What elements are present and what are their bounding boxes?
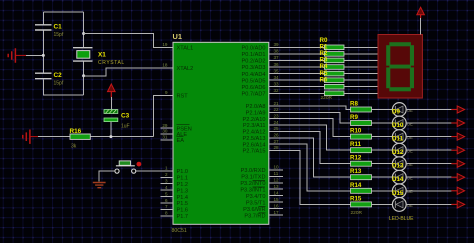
power VCC arrow (above C3)	[108, 84, 116, 98]
svg-text:P1.0: P1.0	[177, 169, 189, 175]
wire R0 to 7-seg display	[344, 46, 378, 48]
svg-text:P3.2/INT0: P3.2/INT0	[240, 181, 265, 187]
resistor R8 220R (LED channel)	[351, 107, 372, 112]
svg-text:11: 11	[274, 171, 279, 176]
power arrow (right) for LED D10	[451, 119, 464, 126]
pin stub EA (pin 31)	[161, 139, 174, 141]
svg-text:P2.1/A9: P2.1/A9	[246, 111, 266, 117]
wire button right to U1 pin 1 (P1.0)	[136, 170, 173, 172]
svg-text:P2.5/A13: P2.5/A13	[242, 136, 265, 142]
svg-text:R8: R8	[350, 101, 358, 108]
wire RST net to U1 pin 9	[154, 95, 174, 136]
resistor R0 220R (7-seg segment)	[324, 45, 344, 50]
wire left rail x=43 through C1 and C2	[43, 12, 83, 95]
power arrow (right) for LED D16	[451, 201, 464, 208]
pin stub P3.1 (pin 11)	[269, 175, 283, 177]
wire display common to VCC	[420, 18, 422, 35]
svg-text:R15: R15	[350, 195, 362, 202]
svg-text:21: 21	[274, 101, 280, 106]
wire P2.6 to resistor R14	[269, 144, 351, 191]
wire R9 to LED	[372, 122, 393, 124]
svg-text:16: 16	[274, 203, 280, 208]
svg-text:R6: R6	[320, 76, 328, 83]
label D12	[392, 149, 404, 156]
svg-text:P1.2: P1.2	[177, 182, 189, 188]
wire R14 to LED	[372, 190, 393, 192]
svg-text:R16: R16	[70, 128, 82, 135]
svg-text:P0.1/AD1: P0.1/AD1	[242, 52, 266, 58]
svg-text:LED-BLUE: LED-BLUE	[389, 216, 414, 222]
LED D9 (LED-BLUE)	[392, 103, 406, 117]
svg-text:P1.7: P1.7	[177, 214, 189, 220]
wire R6 to 7-seg display	[344, 86, 378, 88]
LED D12 (LED-BLUE)	[392, 143, 406, 157]
svg-text:P2.7/A15: P2.7/A15	[242, 149, 265, 155]
7-segment display body	[378, 35, 422, 99]
wire LED D15 to power arrow	[406, 190, 451, 192]
wire LED D12 to power arrow	[406, 149, 451, 151]
svg-text:P3.4/T0: P3.4/T0	[246, 194, 266, 200]
wire XTAL2 net to U1 pin 18	[84, 68, 173, 76]
label LED-BLUE fragment row 0	[407, 108, 413, 113]
wire P2.2 to resistor R10	[269, 119, 351, 137]
pin number 9 (RST)	[165, 90, 168, 95]
svg-text:34: 34	[274, 75, 280, 80]
svg-text:39: 39	[274, 42, 280, 47]
label R5	[320, 70, 328, 77]
svg-text:P0.2/AD2: P0.2/AD2	[242, 59, 266, 65]
wire LED D11 to power arrow	[406, 136, 451, 138]
svg-text:P2.2/A10: P2.2/A10	[242, 117, 265, 123]
junction RST node (R16/C3)	[109, 135, 112, 138]
label D15	[392, 190, 404, 197]
wire LED D13 to power arrow	[406, 163, 451, 165]
wire P2.5 to resistor R13	[269, 138, 351, 177]
wire R13 to LED	[372, 176, 393, 178]
wire P0.4 to resistor R4	[269, 73, 324, 75]
svg-text:28: 28	[274, 145, 280, 150]
wire P2.7 to resistor R15	[269, 150, 351, 204]
wire XTAL1 net to U1 pin 19	[84, 34, 173, 48]
label LED-BLUE fragment row 3	[407, 149, 413, 154]
svg-text:35: 35	[274, 68, 280, 73]
pin stub P1.3 (pin 4)	[161, 189, 174, 191]
svg-text:P0.4/AD4: P0.4/AD4	[242, 72, 266, 78]
pin stub P1.4 (pin 5)	[161, 196, 174, 198]
resistor R7 220R (7-seg segment)	[324, 91, 344, 96]
label R15	[350, 195, 362, 202]
svg-text:33: 33	[274, 82, 280, 87]
svg-text:15pf: 15pf	[54, 32, 64, 38]
svg-text:XTAL2: XTAL2	[177, 66, 194, 72]
power arrow (right) for LED D9	[451, 106, 464, 113]
LED D10 (LED-BLUE)	[392, 116, 406, 130]
svg-text:P1.1: P1.1	[177, 176, 189, 182]
svg-text:32: 32	[274, 88, 280, 93]
pin stub P1.5 (pin 6)	[161, 202, 174, 204]
power arrow (right) for LED D15	[451, 187, 464, 194]
pin number 2 (P1.1)	[165, 172, 168, 177]
resistor R14 220R (LED channel)	[351, 188, 372, 193]
label R6	[320, 76, 328, 83]
resistor R3 220R (7-seg segment)	[324, 65, 344, 70]
svg-text:UE: UE	[407, 149, 413, 154]
resistor R13 220R (LED channel)	[351, 175, 372, 180]
wire ground to R16 left	[38, 136, 70, 138]
wire LED D14 to power arrow	[406, 176, 451, 178]
resistor R6 220R (7-seg segment)	[324, 84, 344, 89]
label LED-BLUE fragment row 1	[407, 121, 413, 126]
svg-text:38: 38	[274, 49, 280, 54]
label R8	[350, 101, 358, 108]
svg-text:UE: UE	[407, 108, 413, 113]
wire P0.6 to resistor R6	[269, 86, 324, 88]
label D13	[392, 163, 404, 170]
capacitor C2	[35, 72, 64, 87]
resistor R2 220R (7-seg segment)	[324, 58, 344, 63]
U1 reference label	[173, 32, 182, 41]
svg-text:10: 10	[274, 165, 280, 170]
wire VCC arrow to C3 top	[110, 97, 112, 110]
ground (sideways power rail symbol) at C1/C2 midpoint	[8, 48, 26, 62]
resistor R4 220R (7-seg segment)	[324, 71, 344, 76]
svg-text:36: 36	[274, 62, 280, 67]
svg-text:UE: UE	[407, 189, 413, 194]
svg-text:D14: D14	[392, 176, 404, 183]
svg-text:UE: UE	[407, 176, 413, 181]
label R0	[320, 37, 328, 44]
label D11	[392, 136, 404, 143]
pin number 30 (ALE)	[162, 129, 168, 134]
svg-text:RST: RST	[177, 94, 189, 100]
pin stub P3.0 (pin 10)	[269, 169, 283, 171]
svg-text:P1.4: P1.4	[177, 195, 189, 201]
wire R16 to RST node	[90, 136, 153, 138]
wire P2.4 to resistor R12	[269, 131, 351, 163]
svg-text:UE: UE	[407, 162, 413, 167]
LED D14 (LED-BLUE)	[392, 170, 406, 184]
svg-text:7: 7	[165, 204, 168, 209]
wire top rail (C1 top to crystal-top rail)	[43, 11, 83, 13]
U1 right pin numbers	[274, 42, 280, 215]
svg-text:27: 27	[274, 139, 280, 144]
svg-text:1uF: 1uF	[121, 123, 130, 129]
resistor R1 220R (7-seg segment)	[324, 52, 344, 57]
svg-text:D13: D13	[392, 163, 404, 170]
pin number 4 (P1.3)	[165, 185, 168, 190]
svg-text:15: 15	[274, 197, 280, 202]
svg-text:P1.5: P1.5	[177, 201, 189, 207]
resistor R12 220R (LED channel)	[351, 161, 372, 166]
wire R2 to 7-seg display	[344, 59, 378, 61]
svg-text:13: 13	[274, 184, 280, 189]
label D14	[392, 176, 404, 183]
wire R10 to LED	[372, 136, 393, 138]
U1 value label 80C51	[172, 228, 187, 234]
svg-text:9: 9	[165, 90, 168, 95]
label R4	[320, 63, 328, 70]
label LED-BLUE (model name, bottom)	[389, 216, 414, 222]
wire P0.0 to resistor R0	[269, 46, 324, 48]
label R2	[320, 50, 328, 57]
svg-text:P3.7/RD: P3.7/RD	[244, 213, 265, 219]
svg-text:D9: D9	[392, 109, 400, 116]
svg-text:14: 14	[274, 191, 280, 196]
label D9	[392, 109, 400, 116]
capacitor C3 (electrolytic)	[104, 110, 130, 130]
pin stub ALE (pin 30)	[161, 133, 174, 135]
svg-text:3: 3	[165, 179, 168, 184]
power VCC arrow above display	[417, 7, 425, 18]
wire button left to ground	[99, 171, 115, 182]
pin stub P3.5 (pin 15)	[269, 201, 283, 203]
svg-text:19: 19	[162, 42, 168, 47]
wire R11 to LED	[372, 149, 393, 151]
svg-text:2: 2	[165, 172, 168, 177]
LED D11 (LED-BLUE)	[392, 130, 406, 144]
svg-text:30: 30	[162, 129, 168, 134]
crystal X1	[73, 48, 125, 66]
resistor R16 3k	[70, 128, 91, 150]
pin number 8 (P1.7)	[165, 211, 168, 216]
wire R3 to 7-seg display	[344, 66, 378, 68]
svg-text:C2: C2	[54, 72, 63, 79]
power arrow (right) for LED D14	[451, 174, 464, 181]
wire R15 to LED	[372, 203, 393, 205]
svg-text:P0.5/AD5: P0.5/AD5	[242, 78, 266, 84]
pin number 1 (P1.0)	[165, 166, 168, 171]
pin number 18 (XTAL2)	[162, 63, 168, 68]
label R12	[350, 155, 362, 162]
svg-text:29: 29	[162, 123, 168, 128]
wire LED D9 to power arrow	[406, 109, 451, 111]
svg-text:R13: R13	[350, 168, 362, 175]
svg-text:P0.7/AD7: P0.7/AD7	[242, 92, 266, 98]
svg-text:12: 12	[274, 178, 280, 183]
svg-text:P0.0/AD0: P0.0/AD0	[242, 46, 266, 52]
label LED-BLUE fragment row 5	[407, 176, 413, 181]
svg-text:220R: 220R	[321, 95, 333, 101]
svg-text:24: 24	[274, 120, 280, 125]
wire C3 bottom to RST node	[110, 122, 112, 137]
svg-text:6: 6	[165, 198, 168, 203]
wire R5 to 7-seg display	[344, 79, 378, 81]
svg-text:P0.3/AD3: P0.3/AD3	[242, 65, 266, 71]
resistor R10 220R (LED channel)	[351, 134, 372, 139]
svg-text:D15: D15	[392, 190, 404, 197]
wire LED D16 to power arrow	[406, 203, 451, 205]
pin number 7 (P1.6)	[165, 204, 168, 209]
button actuator red dot	[137, 162, 142, 167]
svg-text:23: 23	[274, 114, 280, 119]
pin stub PSEN (pin 29)	[161, 127, 174, 129]
svg-text:P2.6/A14: P2.6/A14	[242, 142, 265, 148]
svg-text:15pf: 15pf	[54, 80, 64, 86]
power arrow (right) for LED D12	[451, 147, 464, 154]
junction C1/C2 midpoint node	[42, 54, 45, 57]
pin number 3 (P1.2)	[165, 179, 168, 184]
7-segment digit 8 segments	[386, 42, 414, 91]
resistor R5 220R (7-seg segment)	[324, 78, 344, 83]
svg-text:P3.1/TXD: P3.1/TXD	[241, 175, 265, 181]
svg-text:17: 17	[274, 210, 280, 215]
pin number 31 (EA)	[162, 135, 168, 140]
svg-text:EA: EA	[177, 138, 185, 144]
svg-text:P3.0/RXD: P3.0/RXD	[241, 168, 266, 174]
LED D16 (LED-BLUE)	[392, 198, 406, 212]
svg-text:8: 8	[165, 211, 168, 216]
svg-text:XTAL1: XTAL1	[177, 46, 194, 52]
svg-text:5: 5	[165, 191, 168, 196]
label LED-BLUE fragment row 7	[407, 203, 413, 208]
svg-text:P1.6: P1.6	[177, 208, 189, 214]
svg-text:U1: U1	[173, 32, 182, 41]
wire P2.0 to resistor R8	[269, 106, 351, 110]
label R14	[350, 182, 362, 189]
wire P2.3 to resistor R11	[269, 125, 351, 150]
svg-text:R9: R9	[350, 114, 358, 121]
resistor R11 220R (LED channel)	[351, 148, 372, 153]
svg-text:P3.5/T1: P3.5/T1	[246, 200, 266, 206]
svg-text:UE: UE	[407, 135, 413, 140]
push button (P1.0 reset-to-ground)	[115, 161, 136, 173]
wire R1 to 7-seg display	[344, 53, 378, 55]
wire R7 to 7-seg display	[344, 92, 378, 94]
resistor R15 220R (LED channel)	[351, 202, 372, 207]
pin number 5 (P1.4)	[165, 191, 168, 196]
svg-text:UE: UE	[407, 121, 413, 126]
svg-text:C3: C3	[121, 112, 130, 119]
svg-text:80C51: 80C51	[172, 228, 187, 234]
LED D13 (LED-BLUE)	[392, 157, 406, 171]
svg-text:D12: D12	[392, 149, 404, 156]
U1 left pin names	[177, 46, 194, 221]
svg-text:P2.0/A8: P2.0/A8	[246, 104, 266, 110]
svg-text:P3.6/WR: P3.6/WR	[243, 207, 265, 213]
svg-text:R11: R11	[350, 141, 362, 148]
wire P0.5 to resistor R5	[269, 79, 324, 81]
wire P2.1 to resistor R9	[269, 112, 351, 123]
svg-text:D11: D11	[392, 136, 404, 143]
ground (earth) below button	[93, 183, 106, 188]
svg-text:P0.6/AD6: P0.6/AD6	[242, 85, 266, 91]
svg-text:P2.3/A11: P2.3/A11	[243, 123, 266, 129]
svg-text:X1: X1	[98, 51, 106, 58]
svg-text:R12: R12	[350, 155, 362, 162]
svg-text:26: 26	[274, 133, 280, 138]
wire P0.3 to resistor R3	[269, 66, 324, 68]
ground (sideways) at R16 left	[23, 130, 38, 144]
capacitor C1	[35, 23, 64, 38]
svg-text:P3.3/INT1: P3.3/INT1	[240, 187, 265, 193]
pin stub P3.2 (pin 12)	[269, 182, 283, 184]
svg-text:P1.3: P1.3	[177, 188, 189, 194]
wire R8 to LED	[372, 109, 393, 111]
pin stub P1.2 (pin 3)	[161, 183, 174, 185]
junction XTAL1 node	[82, 32, 85, 35]
pin stub P1.7 (pin 8)	[161, 215, 174, 217]
pin stub P3.6 (pin 16)	[269, 208, 283, 210]
label R13	[350, 168, 362, 175]
label LED-BLUE fragment row 4	[407, 162, 413, 167]
wire crystal rail x=83.6	[83, 12, 85, 95]
pin number 29 (PSEN)	[162, 123, 168, 128]
svg-text:25: 25	[274, 126, 280, 131]
wire P0.2 to resistor R2	[269, 59, 324, 61]
label R3	[320, 57, 328, 64]
pin number 6 (P1.5)	[165, 198, 168, 203]
label R11	[350, 141, 362, 148]
svg-text:18: 18	[162, 63, 168, 68]
svg-text:CRYSTAL: CRYSTAL	[98, 60, 125, 66]
pin stub P1.6 (pin 7)	[161, 208, 174, 210]
svg-text:3k: 3k	[71, 144, 77, 150]
power arrow (right) for LED D11	[451, 133, 464, 140]
svg-text:UE: UE	[407, 203, 413, 208]
pin stub P3.7 (pin 17)	[269, 214, 283, 216]
op-amp-sized IC: microcontroller U1 80C51 body	[173, 42, 269, 224]
label LED-BLUE fragment row 6	[407, 189, 413, 194]
wire ground stem to C1/C2 junction	[26, 54, 43, 56]
U1 right pin names P0/P2/P3	[240, 46, 265, 220]
svg-text:D10: D10	[392, 122, 404, 129]
svg-text:R10: R10	[350, 128, 362, 135]
label R1	[320, 44, 328, 51]
svg-text:22: 22	[274, 107, 280, 112]
svg-text:R14: R14	[350, 182, 362, 189]
pin stub P3.4 (pin 14)	[269, 195, 283, 197]
svg-text:4: 4	[165, 185, 168, 190]
label D10	[392, 122, 404, 129]
label R9	[350, 114, 358, 121]
power arrow (right) for LED D13	[451, 160, 464, 167]
pin number 19 (XTAL1)	[162, 42, 168, 47]
pin stub P1.1 (pin 2)	[161, 176, 174, 178]
svg-text:31: 31	[162, 135, 168, 140]
wire R12 to LED	[372, 163, 393, 165]
svg-text:C1: C1	[54, 23, 63, 30]
LED D15 (LED-BLUE)	[392, 184, 406, 198]
wire P0.7 to resistor R7	[269, 92, 324, 94]
wire R4 to 7-seg display	[344, 73, 378, 75]
resistor R9 220R (LED channel)	[351, 121, 372, 126]
svg-text:P2.4/A12: P2.4/A12	[242, 130, 265, 136]
wire LED D10 to power arrow	[406, 122, 451, 124]
value label 220R (stack R8-R15)	[351, 210, 363, 216]
wire P0.1 to resistor R1	[269, 53, 324, 55]
svg-text:220R: 220R	[351, 210, 363, 216]
label LED-BLUE fragment row 2	[407, 135, 413, 140]
junction XTAL2 node	[82, 74, 85, 77]
svg-text:1: 1	[165, 166, 168, 171]
svg-text:37: 37	[274, 55, 280, 60]
label R10	[350, 128, 362, 135]
value label 220R (stack R0-R7)	[321, 95, 333, 101]
pin stub P3.3 (pin 13)	[269, 188, 283, 190]
